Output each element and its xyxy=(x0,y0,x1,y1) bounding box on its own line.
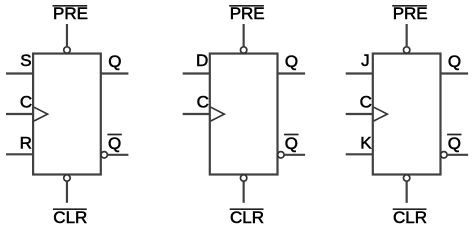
wire C clock input to U3 xyxy=(346,113,373,115)
active-low bubble on PRE pin of U2 xyxy=(240,47,246,53)
wire CLR input to U3 xyxy=(406,181,408,203)
wire C clock input to U2 xyxy=(183,113,210,115)
svg-text:K: K xyxy=(360,134,372,153)
overline of PRE label of U1 xyxy=(53,5,88,7)
wire Q-bar output of U2 xyxy=(284,154,305,156)
wire Q output of U2 xyxy=(278,72,306,74)
J-K flip-flop U3 xyxy=(346,4,468,227)
svg-text:Q: Q xyxy=(108,52,121,71)
D flip-flop U2 xyxy=(183,4,305,227)
wire PRE input to U3 xyxy=(406,24,408,47)
svg-text:C: C xyxy=(360,93,372,112)
wire S input to U1 xyxy=(6,72,33,74)
S-R flip-flop U1 xyxy=(6,4,128,227)
wire Q-bar output of U1 xyxy=(108,154,129,156)
svg-text:J: J xyxy=(361,51,370,70)
svg-text:R: R xyxy=(20,134,32,153)
active-low bubble on PRE pin of U3 xyxy=(403,47,409,53)
svg-text:C: C xyxy=(197,93,209,112)
overline of PRE label of U2 xyxy=(229,5,264,7)
active-low bubble on CLR pin of U2 xyxy=(240,175,246,181)
overline of CLR label of U1 xyxy=(53,208,87,210)
active-low bubble on Q-bar output of U2 xyxy=(278,152,284,158)
clock edge-trigger triangle of U3 xyxy=(374,107,388,121)
wire PRE input to U2 xyxy=(243,24,245,47)
wire C clock input to U1 xyxy=(6,113,33,115)
wire CLR input to U1 xyxy=(66,181,68,203)
active-low bubble on CLR pin of U3 xyxy=(403,175,409,181)
flip-flop U3 body xyxy=(373,54,441,175)
overline of Q-bar label of U2 xyxy=(284,134,298,136)
active-low bubble on CLR pin of U1 xyxy=(64,175,70,181)
svg-text:PRE: PRE xyxy=(53,4,88,23)
active-low bubble on PRE pin of U1 xyxy=(64,47,70,53)
svg-text:Q: Q xyxy=(108,134,121,153)
overline of Q-bar label of U1 xyxy=(107,134,121,136)
overline of Q-bar label of U3 xyxy=(447,134,461,136)
overline of CLR label of U3 xyxy=(393,208,427,210)
wire PRE input to U1 xyxy=(66,24,68,47)
wire Q output of U1 xyxy=(101,72,129,74)
active-low bubble on Q-bar output of U1 xyxy=(101,152,107,158)
svg-text:Q: Q xyxy=(285,134,298,153)
active-low bubble on Q-bar output of U3 xyxy=(441,152,447,158)
clock edge-trigger triangle of U2 xyxy=(211,107,225,121)
svg-text:CLR: CLR xyxy=(393,208,427,227)
wire CLR input to U2 xyxy=(243,181,245,203)
svg-text:D: D xyxy=(196,51,208,70)
wire K input to U3 xyxy=(346,153,373,155)
clock edge-trigger triangle of U1 xyxy=(34,107,48,121)
svg-text:Q: Q xyxy=(448,52,461,71)
svg-text:CLR: CLR xyxy=(53,208,87,227)
svg-text:CLR: CLR xyxy=(230,208,264,227)
wire Q-bar output of U3 xyxy=(447,154,468,156)
svg-text:PRE: PRE xyxy=(393,4,428,23)
svg-text:C: C xyxy=(20,93,32,112)
flip-flop U2 body xyxy=(210,54,278,175)
svg-text:PRE: PRE xyxy=(230,4,265,23)
wire D input to U2 xyxy=(183,72,210,74)
overline of CLR label of U2 xyxy=(230,208,264,210)
svg-text:Q: Q xyxy=(285,52,298,71)
wire J input to U3 xyxy=(346,72,373,74)
wire R input to U1 xyxy=(6,153,33,155)
flip-flop U1 body xyxy=(33,54,101,175)
svg-text:Q: Q xyxy=(448,134,461,153)
svg-text:S: S xyxy=(20,51,31,70)
wire Q output of U3 xyxy=(441,72,469,74)
overline of PRE label of U3 xyxy=(392,5,427,7)
